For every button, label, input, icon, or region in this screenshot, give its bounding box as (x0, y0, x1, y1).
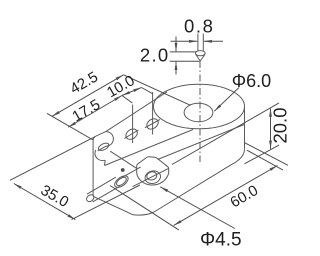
svg-text:20.0: 20.0 (269, 107, 290, 143)
svg-text:35.0: 35.0 (38, 182, 72, 211)
svg-text:42.5: 42.5 (67, 68, 101, 97)
svg-text:Φ6.0: Φ6.0 (232, 71, 271, 91)
svg-text:17.5: 17.5 (69, 96, 103, 125)
svg-text:2.0: 2.0 (140, 45, 170, 66)
svg-text:0.8: 0.8 (184, 15, 215, 36)
svg-text:60.0: 60.0 (227, 182, 261, 211)
svg-text:Φ4.5: Φ4.5 (200, 230, 242, 251)
svg-text:10.0: 10.0 (104, 72, 138, 101)
